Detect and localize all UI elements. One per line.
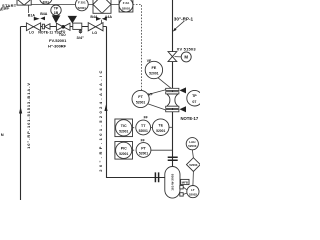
controller PIC 52001 xyxy=(115,142,133,160)
instrument circle FY 2A in square xyxy=(119,0,133,12)
vessel nozzle square lower xyxy=(180,193,183,196)
wire: middle vertical pipe x=106 down and bottom run to vessel xyxy=(107,27,165,178)
actuator triangle 2 xyxy=(68,16,77,24)
instrument circle FE 52001 xyxy=(145,61,162,78)
svg-text:52001: 52001 xyxy=(156,129,165,133)
svg-text:LO: LO xyxy=(29,30,34,34)
instrument circle 3001 (cut at top) xyxy=(40,0,53,4)
wire: top main pipe y=26.7 xyxy=(21,26,107,28)
svg-text:F 2A: F 2A xyxy=(123,1,130,5)
svg-text:PIC: PIC xyxy=(121,146,127,150)
svg-text:52001: 52001 xyxy=(139,151,148,155)
wire: vessel nozzle to LT lower xyxy=(183,193,187,194)
wire: leader line for 30in-RP callout xyxy=(175,21,185,30)
arrow: spec break B4A right-pointing xyxy=(96,17,101,21)
svg-text:LO: LO xyxy=(92,31,97,35)
venturi flow element xyxy=(166,88,179,111)
wire: interlock diamond to LT xyxy=(192,171,195,185)
wire: right vertical 30in pipe x=172.3 xyxy=(172,0,174,167)
reducer xyxy=(42,24,50,30)
svg-text:52003: 52003 xyxy=(188,144,196,148)
motor valve XV-51503 xyxy=(168,47,196,62)
arrow: venturi lower tap arrow xyxy=(179,106,186,112)
wire: FT lower tap to venturi xyxy=(147,104,167,111)
wire: 3/4in drain stub xyxy=(80,30,82,34)
arrow: spec break B4A left-pointing xyxy=(40,17,45,21)
instrument circle TP 1B xyxy=(51,5,61,15)
svg-text:FV-52001: FV-52001 xyxy=(49,38,67,43)
flange pair on bottom line xyxy=(155,172,158,182)
svg-text:TP: TP xyxy=(54,6,59,10)
wire: spec break tick at x=101.5 xyxy=(101,20,103,27)
svg-text:20"-RP-101-52024-A4A-IC: 20"-RP-101-52024-A4A-IC xyxy=(98,68,103,172)
svg-text:52001: 52001 xyxy=(119,129,128,133)
gate valve LO1 xyxy=(26,23,40,35)
svg-text:B1A: B1A xyxy=(28,14,36,18)
gate valve LO2 xyxy=(88,23,103,35)
svg-text:52003: 52003 xyxy=(189,192,197,196)
arrow: venturi upper tap arrow xyxy=(179,87,186,93)
svg-text:3/4": 3/4" xyxy=(77,35,85,40)
svg-text:PT: PT xyxy=(141,146,146,150)
logic box2 with diamond xyxy=(93,0,111,13)
svg-text:H"-300RF: H"-300RF xyxy=(48,43,67,48)
flange pair on vessel top line xyxy=(168,157,178,160)
control valve FV-52001 body xyxy=(56,23,70,30)
svg-text:FF: FF xyxy=(144,116,148,120)
svg-text:N: N xyxy=(1,132,4,137)
controller TIC 52001 xyxy=(115,119,133,137)
wire: vessel nozzle to LT upper xyxy=(183,187,187,190)
svg-text:52001: 52001 xyxy=(119,152,128,156)
wire: left vertical pipe x=20.6 xyxy=(20,27,22,201)
svg-text:XV 51503: XV 51503 xyxy=(177,47,197,52)
instrument circle LAH 52003 xyxy=(186,138,198,150)
arrow: flow arrow on middle pipe xyxy=(104,105,107,112)
MFB box xyxy=(181,179,189,184)
arrow: spec break A4A left-pointing xyxy=(102,17,107,21)
svg-text:52001: 52001 xyxy=(136,101,146,105)
svg-text:52003: 52003 xyxy=(189,163,197,167)
symbol: small drain circle xyxy=(79,30,82,33)
inline box valve xyxy=(73,23,82,29)
svg-text:B4A: B4A xyxy=(90,15,98,19)
svg-text:10"-RP-101-51513-B1A-V: 10"-RP-101-51513-B1A-V xyxy=(26,82,31,149)
instrument circle TP 07 xyxy=(187,90,203,106)
wire: top instrument signal line y=4.6 xyxy=(31,4,119,6)
instrument circle PT 52001 xyxy=(136,143,151,158)
wire: PT to pipe xyxy=(151,149,173,151)
arrow: flow arrow on left pipe xyxy=(19,107,22,114)
svg-text:TSO: TSO xyxy=(59,33,66,37)
svg-text:B4A: B4A xyxy=(40,12,48,16)
instrument circle FT 52001 xyxy=(132,90,149,107)
svg-text:NOTE-17: NOTE-17 xyxy=(181,116,199,121)
instrument circle LT 52003 xyxy=(187,186,199,198)
wire: dashed TIC to TT xyxy=(133,127,136,129)
svg-text:07: 07 xyxy=(192,100,196,104)
wire: FE tap to venturi xyxy=(158,77,173,89)
svg-text:1B: 1B xyxy=(54,11,59,15)
logic box1 with diamond top-left xyxy=(17,0,31,5)
instrument circle TE 52001 xyxy=(152,119,169,136)
svg-text:161-W-3003: 161-W-3003 xyxy=(171,174,175,191)
svg-text:F 251: F 251 xyxy=(78,0,86,4)
vessel 161-W-3003 xyxy=(165,167,180,199)
wire: dashed PIC to PT xyxy=(133,149,137,151)
svg-text:M: M xyxy=(184,55,188,60)
arrow: 30in-RP leader arrowhead xyxy=(173,28,177,32)
wire: stub under logic box1 xyxy=(28,5,30,13)
svg-text:FF: FF xyxy=(141,138,145,142)
wire: LAH to interlock diamond xyxy=(192,150,193,158)
svg-text:TP: TP xyxy=(192,94,197,98)
actuator triangle on FV-52001 xyxy=(52,15,61,23)
wire: TT to TE xyxy=(150,126,152,128)
svg-text:52001: 52001 xyxy=(78,6,87,10)
svg-text:FT: FT xyxy=(138,95,143,99)
instrument circle TT 52001 xyxy=(136,120,151,135)
wire: TE to pipe xyxy=(169,126,173,128)
interlock diamond 52003 xyxy=(187,158,201,172)
svg-text:FE: FE xyxy=(151,66,156,70)
svg-text:3001: 3001 xyxy=(43,0,50,4)
svg-text:52001: 52001 xyxy=(149,72,159,76)
svg-text:30"-RP-1: 30"-RP-1 xyxy=(174,17,194,22)
svg-text:TIC: TIC xyxy=(121,124,127,128)
wire: dashed signal from FY to FT xyxy=(133,5,142,91)
svg-text:52001: 52001 xyxy=(139,129,148,133)
svg-text:A4A: A4A xyxy=(105,15,113,19)
vessel nozzle square upper xyxy=(180,186,183,189)
wire: FT upper tap to venturi xyxy=(148,89,168,94)
instrument circle F251/52001 xyxy=(75,0,88,11)
svg-text:MFB: MFB xyxy=(182,181,188,185)
svg-text:TE: TE xyxy=(158,124,163,128)
svg-text:52001: 52001 xyxy=(122,7,131,11)
arrow: spec break B1A right-pointing xyxy=(34,17,40,21)
